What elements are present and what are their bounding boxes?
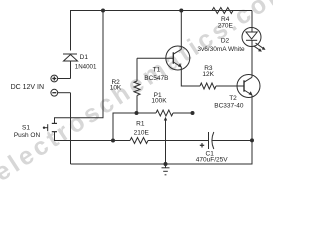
wire R1 to C1: [148, 140, 209, 142]
terminal plus DC input: [51, 75, 58, 82]
node P1 right end dot: [191, 111, 195, 115]
svg-text:R1: R1: [136, 121, 145, 128]
label R3: [202, 65, 214, 78]
wire T1 base: [137, 57, 173, 59]
label C1: [196, 151, 228, 164]
diode D1: [63, 54, 78, 79]
transistor T2: [237, 75, 260, 98]
svg-text:270E: 270E: [218, 23, 234, 30]
wire bottom ground rail: [71, 140, 253, 164]
terminal minus DC input: [51, 89, 58, 96]
svg-text:BC337-40: BC337-40: [214, 102, 244, 109]
label D1: [75, 54, 97, 70]
wire R3 to T2 base: [216, 85, 244, 87]
wire D1 column top: [70, 11, 72, 51]
label R1: [134, 121, 150, 137]
node right column junction: [250, 138, 254, 142]
wire plus terminal to D1: [58, 78, 71, 80]
node R2 bottom junction: [135, 111, 139, 115]
label S1: [14, 125, 41, 139]
svg-text:BC547B: BC547B: [144, 75, 168, 82]
resistor R3: [200, 83, 216, 89]
svg-text:10K: 10K: [110, 85, 122, 92]
resistor R4: [212, 8, 233, 14]
transistor T1: [166, 46, 190, 70]
label DC 12V IN: [11, 84, 44, 91]
node top rail junction A: [101, 9, 105, 13]
svg-text:T1: T1: [153, 67, 161, 74]
wire P1 right stub: [173, 112, 193, 114]
wire switch bottom riser: [55, 132, 131, 141]
svg-text:1N4001: 1N4001: [75, 63, 97, 70]
label D2: [197, 37, 245, 53]
wire minus column: [70, 93, 72, 164]
wire T1 collector: [180, 11, 182, 50]
wire minus terminal: [58, 92, 71, 94]
wire C1 to right column: [212, 140, 252, 142]
svg-text:T2: T2: [229, 95, 237, 102]
label P1: [151, 92, 167, 105]
svg-text:12K: 12K: [202, 71, 214, 78]
potentiometer P1: [156, 110, 173, 164]
wire top rail right corner to LED: [251, 11, 253, 28]
LED D2: [242, 28, 266, 52]
svg-text:210E: 210E: [134, 129, 150, 136]
label R4: [218, 16, 234, 30]
svg-text:D1: D1: [80, 54, 89, 61]
svg-text:470uF/25V: 470uF/25V: [196, 157, 228, 164]
svg-text:DC 12V IN: DC 12V IN: [11, 84, 44, 91]
svg-text:S1: S1: [22, 125, 30, 132]
svg-text:D2: D2: [221, 37, 230, 44]
svg-text:Push ON: Push ON: [14, 132, 41, 139]
node top rail junction B: [179, 9, 183, 13]
capacitor C1: [200, 132, 214, 149]
resistor R2: [134, 58, 140, 113]
label R2: [110, 79, 122, 92]
svg-text:3v6/30mA White: 3v6/30mA White: [197, 46, 245, 53]
ground: [162, 164, 170, 175]
resistor R1: [130, 138, 148, 144]
wire top rail: [70, 10, 252, 12]
wire T1 emitter to R3: [181, 67, 200, 86]
label T2: [214, 95, 244, 109]
switch S1: [43, 123, 57, 131]
node ground junction: [164, 162, 168, 166]
wire T2 collector to D2: [251, 47, 253, 78]
svg-text:100K: 100K: [151, 97, 167, 104]
wire T2 emitter column: [251, 95, 253, 140]
label T1: [144, 67, 168, 82]
wire P1 left riser: [113, 113, 156, 141]
node R1 rail left junction: [111, 139, 115, 143]
wire switch top net: [55, 11, 104, 124]
